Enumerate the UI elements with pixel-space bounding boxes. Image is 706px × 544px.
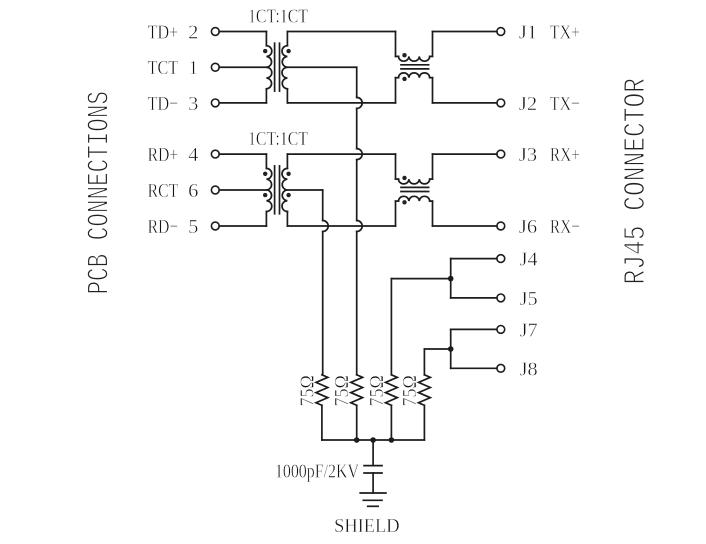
svg-text:TCT: TCT [148, 57, 179, 79]
svg-text:SHIELD: SHIELD [334, 515, 400, 537]
svg-text:J8: J8 [520, 358, 538, 380]
svg-text:1CT:1CT: 1CT:1CT [248, 7, 308, 28]
svg-text:RX+: RX+ [550, 144, 580, 166]
svg-text:J7: J7 [520, 319, 538, 341]
svg-text:75Ω: 75Ω [332, 375, 353, 406]
svg-text:RD−: RD− [148, 216, 179, 238]
svg-text:J5: J5 [520, 288, 538, 310]
svg-text:J3: J3 [519, 144, 537, 166]
svg-text:RD+: RD+ [148, 144, 179, 166]
svg-text:PCB CONNECTIONS: PCB CONNECTIONS [83, 91, 118, 294]
svg-text:TD+: TD+ [148, 22, 179, 44]
svg-text:J6: J6 [519, 216, 537, 238]
svg-text:6: 6 [188, 180, 198, 202]
svg-text:RX−: RX− [550, 216, 580, 238]
svg-text:RCT: RCT [148, 180, 179, 202]
svg-text:TD−: TD− [148, 93, 179, 115]
svg-text:2: 2 [188, 22, 198, 44]
svg-text:5: 5 [188, 216, 198, 238]
svg-text:75Ω: 75Ω [297, 375, 318, 406]
svg-text:TX+: TX+ [550, 22, 580, 44]
svg-text:75Ω: 75Ω [367, 375, 388, 406]
svg-text:4: 4 [188, 144, 198, 166]
svg-text:1CT:1CT: 1CT:1CT [248, 129, 308, 150]
svg-text:J2: J2 [519, 93, 537, 115]
svg-text:RJ45 CONNECTOR: RJ45 CONNECTOR [619, 78, 654, 285]
svg-text:3: 3 [188, 93, 198, 115]
svg-text:1000pF/2KV: 1000pF/2KV [275, 460, 359, 482]
svg-text:TX−: TX− [550, 93, 580, 115]
svg-text:J4: J4 [520, 249, 538, 271]
svg-text:1: 1 [188, 57, 198, 79]
svg-text:75Ω: 75Ω [400, 375, 421, 406]
svg-text:J1: J1 [519, 22, 537, 44]
